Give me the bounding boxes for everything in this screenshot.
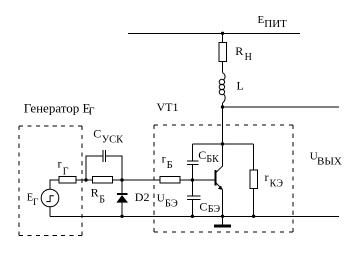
node junction B	[120, 178, 123, 181]
capacitor CБК	[187, 161, 199, 165]
value label rГ	[58, 157, 69, 178]
value label RБ	[91, 186, 106, 206]
wire rКЭ to bottom rail	[253, 189, 255, 217]
resistor rКЭ	[250, 170, 257, 189]
wire collector output rail	[223, 106, 340, 108]
value label L	[237, 79, 244, 93]
node junction emitter bottom	[221, 215, 224, 218]
wire source top lead	[50, 180, 59, 189]
wire node B to rБ	[122, 179, 160, 181]
inductor L	[219, 73, 225, 108]
svg-text:Г: Г	[89, 107, 95, 118]
diode D2	[116, 180, 128, 216]
node junction D2 bottom	[120, 215, 123, 218]
ground	[214, 216, 231, 227]
wire source bottom lead	[49, 207, 51, 217]
svg-text:ПИТ: ПИТ	[264, 18, 287, 30]
svg-text:r: r	[58, 157, 62, 171]
svg-text:VT1: VT1	[157, 100, 179, 114]
wire rГ to node A	[76, 179, 93, 181]
svg-text:ВЫХ: ВЫХ	[317, 155, 342, 167]
transistor VT1	[216, 144, 223, 216]
svg-text:D2: D2	[135, 190, 150, 204]
svg-text:Г: Г	[33, 198, 39, 208]
designator label D2	[135, 190, 150, 204]
resistor RБ	[93, 177, 113, 184]
resistor rГ	[59, 177, 76, 184]
svg-text:БЭ: БЭ	[208, 204, 221, 215]
wire CУСК branch left	[86, 156, 103, 180]
generator source ЕГ	[41, 189, 59, 207]
svg-text:БЭ: БЭ	[165, 198, 178, 209]
value label ЕГ	[27, 193, 39, 209]
svg-text:L: L	[237, 79, 244, 93]
wire CБК to base node	[191, 165, 193, 180]
svg-text:R: R	[235, 44, 243, 58]
svg-text:Н: Н	[245, 52, 252, 63]
node base junction	[191, 178, 194, 181]
transistor VT1 dashed box	[154, 125, 293, 232]
designator label VT1	[157, 100, 179, 114]
resistor RН	[219, 43, 227, 62]
svg-text:Б: Б	[167, 160, 173, 171]
svg-text:Б: Б	[99, 195, 105, 206]
value label rКЭ	[265, 170, 284, 190]
svg-text:Генератор Е: Генератор Е	[24, 100, 91, 115]
capacitor CУСК	[103, 150, 106, 162]
wire CУСК branch right	[105, 156, 122, 180]
svg-text:УСК: УСК	[102, 134, 124, 145]
svg-text:С: С	[198, 148, 206, 162]
resistor rБ	[160, 177, 180, 184]
wire junction down to VT1 collector rail	[222, 107, 224, 144]
svg-text:R: R	[91, 186, 99, 200]
svg-text:КЭ: КЭ	[270, 179, 284, 190]
wire base feed	[180, 179, 215, 181]
svg-text:r: r	[162, 151, 166, 165]
wire from supply rail to RН	[222, 33, 224, 42]
svg-text:U: U	[157, 192, 165, 204]
net label ЕПИТ	[258, 14, 288, 30]
node junction CБЭ bottom	[191, 215, 194, 218]
svg-text:r: r	[265, 170, 269, 184]
wire bottom rail	[50, 215, 339, 217]
generator dashed box	[19, 126, 82, 236]
value label RН	[235, 44, 252, 63]
value label CБЭ	[199, 199, 220, 215]
block label Генератор ЕГ	[24, 100, 95, 117]
node junction inductor to output rail	[221, 105, 224, 108]
wire inner rail to CБК	[191, 144, 193, 161]
value label rБ	[162, 151, 173, 171]
value label CУСК	[93, 126, 124, 145]
wire inner rail to rКЭ	[253, 144, 255, 170]
svg-text:БК: БК	[206, 154, 219, 165]
net label UВЫХ	[310, 151, 342, 168]
svg-text:Г: Г	[63, 167, 69, 178]
wire RБ to node B	[113, 179, 123, 181]
net label UБЭ	[157, 192, 178, 209]
svg-text:С: С	[199, 199, 207, 213]
node junction A	[84, 178, 87, 181]
wire RН to inductor	[222, 62, 224, 73]
value label CБК	[198, 148, 219, 165]
capacitor CБЭ	[187, 196, 201, 200]
wire inner collector rail	[192, 143, 253, 145]
wire top supply rail	[128, 32, 300, 34]
wire CБЭ to bottom rail	[191, 200, 193, 217]
node junction on supply rail	[221, 32, 224, 35]
wire base node to CБЭ	[191, 180, 193, 196]
node junction inner rail	[221, 142, 224, 145]
node junction rКЭ bottom	[252, 215, 255, 218]
svg-text:С: С	[93, 126, 101, 140]
